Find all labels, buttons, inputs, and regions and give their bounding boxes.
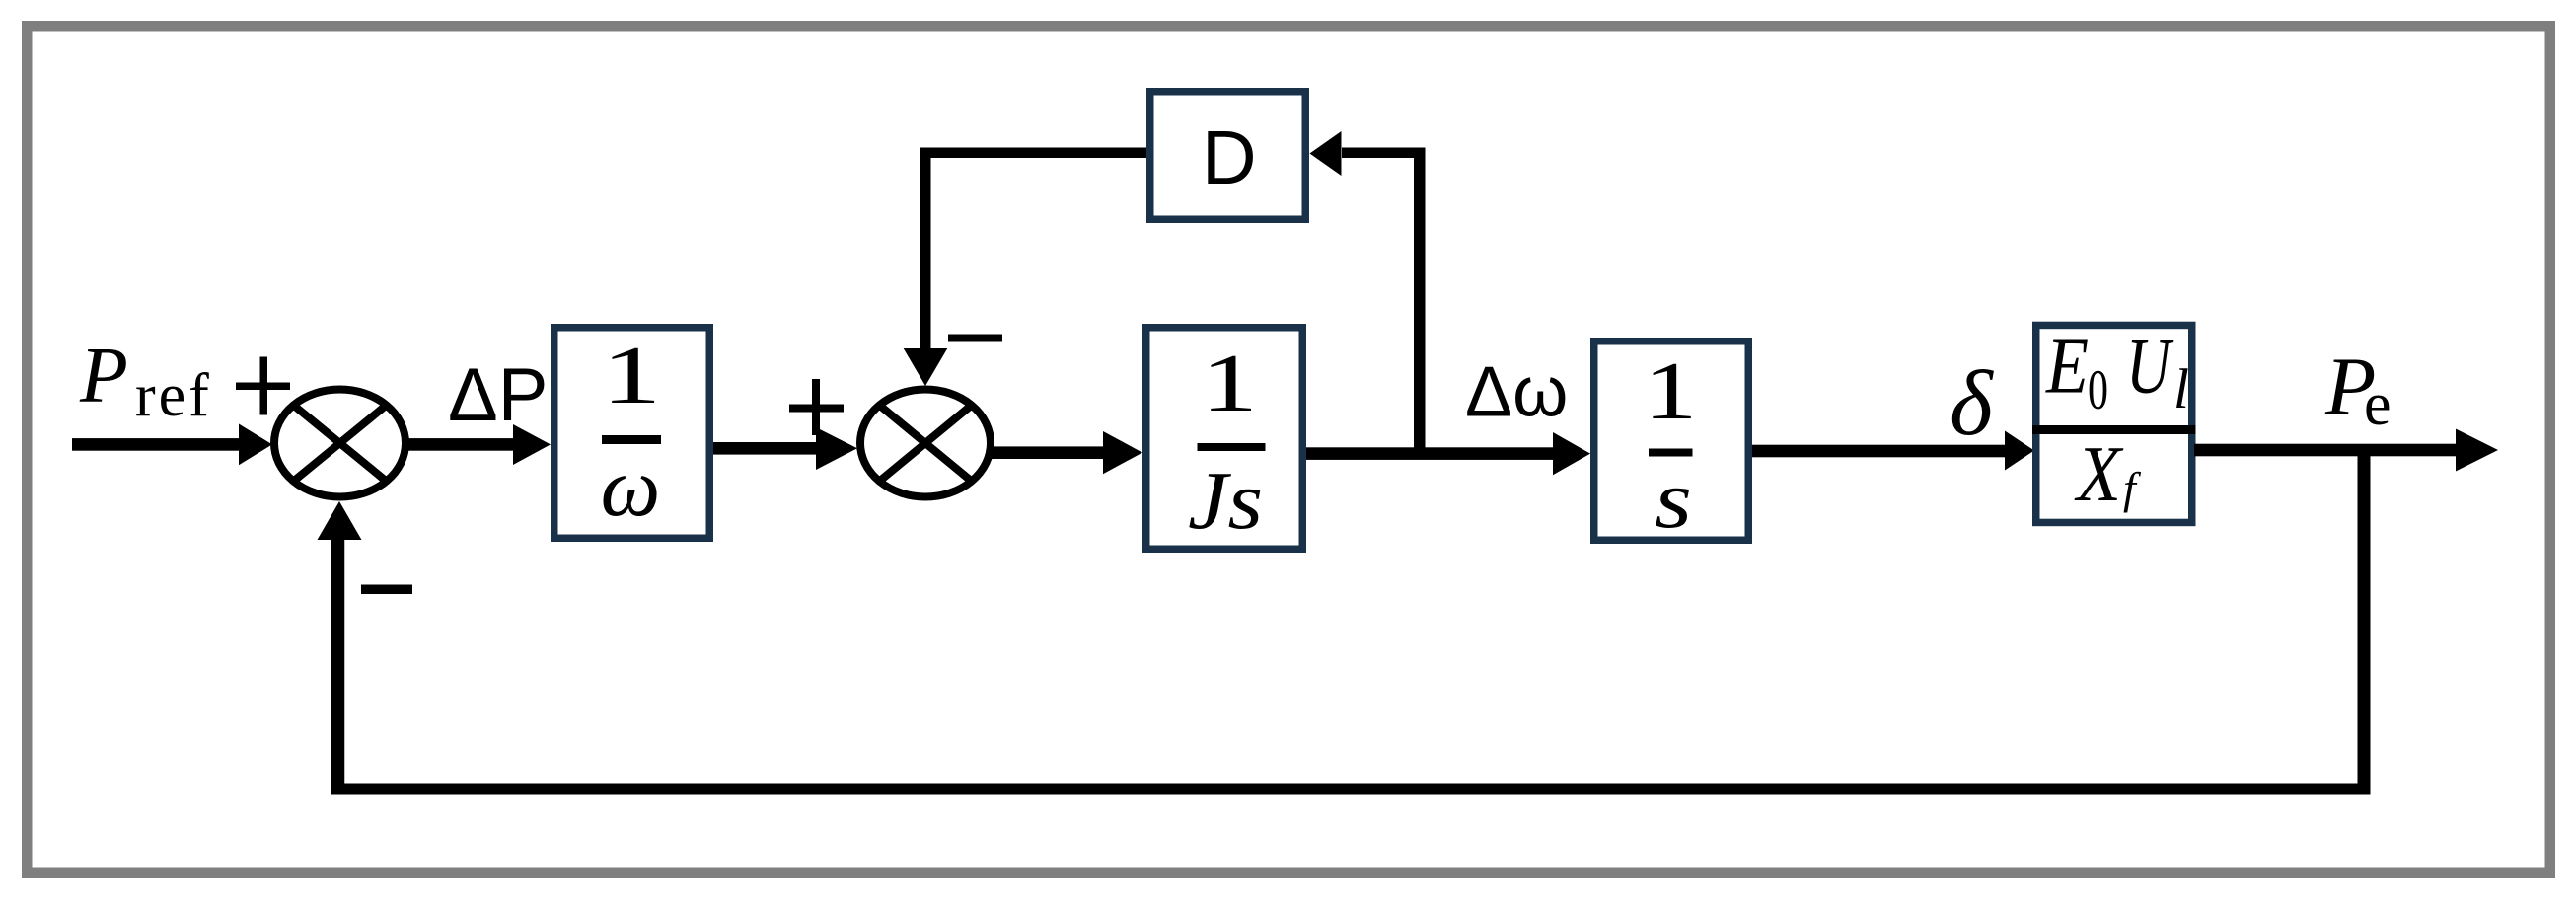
node Pref label [79,333,212,430]
wire S1 to block 1/w [405,424,551,465]
svg-text:δ: δ [1950,352,1994,455]
svg-text:Js: Js [1188,455,1263,547]
wire block 1/s to block E0Ul/Xf [1752,431,2034,471]
svg-text:s: s [1655,454,1692,546]
svg-text:E: E [2045,324,2089,411]
svg-text:U: U [2126,324,2174,411]
wire block 1/Js to block 1/s [1306,432,1590,475]
svg-text:ΔP: ΔP [448,353,548,437]
svg-text:0: 0 [2088,359,2108,421]
svg-text:e: e [2364,371,2392,438]
node minus sign at summing junction S1 [361,585,412,595]
block 1/s [1594,341,1749,546]
node Pe label [2324,341,2392,439]
wire feedback Pe down and left [331,450,2371,795]
svg-text:1: 1 [1644,345,1698,437]
node plus sign at summing junction S1 [236,357,290,415]
svg-text:Δω: Δω [1465,353,1568,432]
svg-text:ref: ref [135,362,212,429]
svg-text:X: X [2074,431,2124,518]
svg-text:D: D [1202,115,1257,200]
svg-text:P: P [79,333,128,419]
wire block 1/w to summing junction S2 [713,427,857,470]
node minus sign at summing junction S2 [948,335,1002,342]
block 1/w [554,328,710,539]
svg-text:1: 1 [1201,337,1258,428]
svg-text:ω: ω [601,439,661,534]
summing junction S1 [274,390,405,497]
wire input Pref [72,424,272,466]
block D [1150,92,1306,220]
summing junction S2 [860,390,991,497]
svg-text:1: 1 [602,329,662,420]
node plus sign at summing junction S2 [789,379,844,435]
wire S2 to block 1/Js [991,431,1142,474]
block E0Ul/Xf [2032,324,2196,523]
wire junction up to block D input [1310,131,1426,454]
wire block D output down to S2 [904,148,1146,387]
svg-text:l: l [2173,358,2189,420]
wire feedback up into S1 [318,501,362,790]
block 1/Js [1146,328,1303,550]
wire output Pe [2194,429,2498,472]
